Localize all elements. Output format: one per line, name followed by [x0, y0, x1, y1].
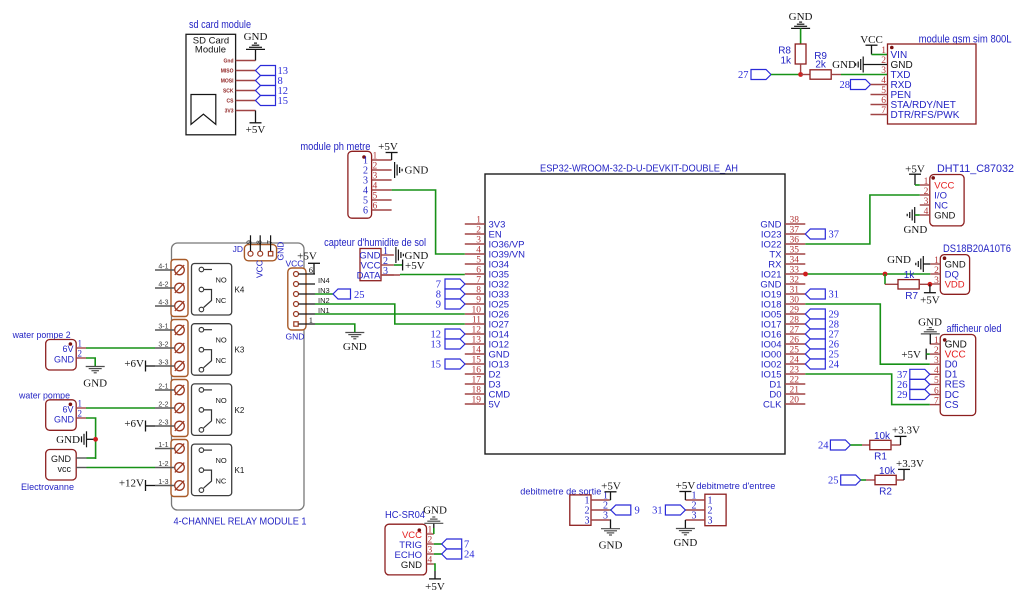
svg-text:8: 8 — [254, 240, 263, 244]
svg-text:4-2: 4-2 — [158, 282, 168, 289]
svg-text:10k: 10k — [874, 431, 891, 442]
power +3.3V at R1 — [900, 436, 902, 445]
svg-text:1k: 1k — [780, 56, 792, 67]
node 9 label at sortie — [610, 509, 611, 511]
svg-text:33: 33 — [790, 266, 800, 276]
svg-text:5V: 5V — [489, 399, 501, 410]
svg-text:25: 25 — [354, 290, 365, 301]
Electrovanne pins — [76, 457, 86, 459]
svg-text:15: 15 — [278, 96, 289, 107]
svg-text:3: 3 — [603, 511, 608, 522]
svg-text:32: 32 — [790, 276, 800, 286]
node 29 label at oled DC — [910, 390, 930, 400]
svg-text:MOSI: MOSI — [221, 79, 234, 85]
svg-text:GND: GND — [832, 59, 856, 71]
wire connector GND — [315, 324, 355, 333]
screw terminal 3-2 — [155, 347, 175, 349]
module gsm sim 800L body — [888, 44, 977, 124]
connector pin IN4 — [294, 282, 299, 287]
node 26 label — [805, 339, 825, 349]
svg-text:GND: GND — [599, 540, 623, 552]
screw terminal 4-3 — [155, 305, 175, 307]
svg-text:24: 24 — [818, 441, 829, 452]
svg-text:+5V: +5V — [425, 581, 445, 593]
screw terminal 3-3 — [155, 365, 175, 367]
module ph metre body — [348, 151, 372, 218]
U1 ESP32 body — [485, 174, 785, 454]
svg-text:5: 5 — [934, 376, 939, 386]
svg-text:+5V: +5V — [405, 260, 425, 272]
debitmetre d'entree body — [705, 494, 726, 526]
svg-text:1: 1 — [428, 526, 433, 536]
svg-text:VCC: VCC — [860, 34, 883, 46]
screw terminal 3-1 — [155, 329, 175, 331]
svg-text:NC: NC — [216, 296, 227, 305]
node 13 label (MISO) — [256, 66, 276, 76]
junction R8/R9 — [798, 72, 803, 77]
svg-text:30: 30 — [790, 296, 800, 306]
svg-text:26: 26 — [790, 336, 800, 346]
svg-text:3: 3 — [428, 546, 433, 556]
svg-text:31: 31 — [790, 286, 800, 296]
svg-text:R7: R7 — [905, 291, 918, 302]
ground GND at ph metre pin2 — [394, 162, 396, 178]
resistor R2 10k — [866, 479, 875, 481]
svg-text:14: 14 — [472, 346, 482, 356]
svg-text:1-2: 1-2 — [158, 461, 168, 468]
svg-text:21: 21 — [790, 386, 800, 396]
svg-text:20: 20 — [790, 396, 800, 406]
svg-text:GND: GND — [789, 11, 813, 23]
svg-text:ESP32-WROOM-32-D-U-DEVKIT-DOUB: ESP32-WROOM-32-D-U-DEVKIT-DOUBLE_AH — [540, 164, 738, 175]
svg-text:4: 4 — [934, 366, 939, 376]
ground GND below water pompe 2 — [86, 366, 105, 368]
svg-text:1: 1 — [78, 399, 83, 409]
capteur body — [360, 249, 381, 281]
HC-SR04 pins — [427, 533, 434, 535]
wire pompe2 GND — [86, 358, 95, 367]
sd card icon — [191, 95, 216, 125]
svg-text:GND: GND — [54, 354, 75, 364]
svg-text:+5V: +5V — [246, 124, 266, 136]
svg-text:4: 4 — [476, 246, 481, 256]
capteur pins — [381, 254, 394, 256]
ground GND below relay connector — [345, 332, 364, 334]
relay K2 — [192, 384, 232, 436]
relay K3 — [192, 324, 232, 376]
svg-text:2: 2 — [78, 409, 83, 419]
svg-text:3: 3 — [924, 197, 929, 207]
wire pompe GND down — [86, 418, 96, 459]
svg-text:18: 18 — [472, 386, 482, 396]
svg-text:CS: CS — [227, 99, 235, 105]
svg-text:GND: GND — [244, 31, 268, 43]
svg-text:VCC: VCC — [255, 260, 265, 278]
resistor R1 10k — [862, 444, 870, 446]
power +5V at DS18B20 — [929, 284, 931, 292]
svg-text:GND: GND — [918, 317, 942, 329]
svg-text:27: 27 — [790, 326, 800, 336]
DS18B20 body — [940, 255, 969, 295]
connector pin IN2 — [294, 302, 299, 307]
svg-text:GND: GND — [276, 242, 286, 261]
node 15 label (CS) — [256, 96, 276, 106]
svg-text:4-3: 4-3 — [158, 300, 168, 307]
svg-text:6: 6 — [363, 206, 368, 217]
wire pompe2 to 3-2 — [86, 347, 155, 349]
JD pin 9 — [248, 251, 253, 256]
svg-text:NO: NO — [216, 456, 227, 465]
DS18B20 pins — [930, 263, 940, 265]
relay K1 — [192, 444, 232, 496]
svg-text:29: 29 — [790, 306, 800, 316]
svg-text:GND: GND — [56, 434, 80, 446]
svg-text:24: 24 — [464, 550, 475, 561]
svg-text:GND: GND — [405, 165, 429, 177]
svg-text:6V: 6V — [62, 344, 73, 354]
svg-text:vcc: vcc — [58, 464, 72, 474]
water pompe pins — [76, 407, 86, 409]
svg-text:K2: K2 — [235, 406, 245, 415]
svg-text:2: 2 — [924, 187, 929, 197]
svg-text:R2: R2 — [879, 486, 892, 497]
svg-text:2k: 2k — [815, 60, 827, 71]
svg-text:NC: NC — [216, 416, 227, 425]
svg-text:11: 11 — [472, 316, 481, 326]
svg-text:3V3: 3V3 — [225, 109, 234, 115]
svg-text:1-3: 1-3 — [158, 479, 168, 486]
svg-text:16: 16 — [472, 366, 482, 376]
svg-text:17: 17 — [472, 376, 482, 386]
node 12 label (SCK) — [256, 86, 276, 96]
node 37 label at oled D1 — [910, 369, 930, 379]
svg-text:29: 29 — [897, 390, 908, 401]
svg-text:DS18B20A10T6: DS18B20A10T6 — [943, 243, 1011, 255]
svg-text:GND: GND — [423, 505, 447, 517]
svg-text:2: 2 — [881, 56, 886, 66]
svg-text:6: 6 — [934, 386, 939, 396]
svg-text:4: 4 — [373, 182, 378, 192]
svg-text:7: 7 — [881, 106, 886, 116]
svg-text:13: 13 — [472, 336, 482, 346]
svg-text:1-1: 1-1 — [158, 442, 168, 449]
svg-text:+5V: +5V — [378, 141, 398, 153]
svg-text:2: 2 — [373, 162, 378, 172]
svg-text:+5V: +5V — [920, 295, 940, 307]
svg-text:10: 10 — [472, 306, 482, 316]
svg-text:1k: 1k — [904, 270, 916, 281]
resistor R7 1k — [885, 283, 898, 285]
svg-text:25: 25 — [790, 346, 800, 356]
node 8 label at IO33 — [445, 289, 465, 299]
power +5V at sd card — [255, 111, 257, 123]
svg-text:K3: K3 — [235, 346, 245, 355]
screw terminal 2-1 — [155, 389, 175, 391]
svg-text:2: 2 — [934, 346, 939, 356]
ph metre pins — [372, 159, 392, 161]
power +5V at ph metre — [391, 153, 393, 161]
svg-text:2: 2 — [78, 349, 83, 359]
svg-text:15: 15 — [431, 360, 442, 371]
svg-text:MISO: MISO — [221, 69, 234, 75]
wire GND to R8 — [800, 28, 802, 44]
svg-text:NO: NO — [216, 276, 227, 285]
svg-text:34: 34 — [790, 256, 800, 266]
svg-text:31: 31 — [829, 290, 840, 301]
svg-text:22: 22 — [790, 376, 800, 386]
wire elec vcc to 1-2 — [87, 467, 156, 469]
connector pin IN3 — [294, 292, 299, 297]
svg-text:3-2: 3-2 — [158, 342, 168, 349]
junction R7 tap — [883, 272, 888, 277]
svg-text:GND: GND — [401, 560, 422, 571]
svg-text:6: 6 — [373, 202, 378, 212]
JD pin 8 — [258, 251, 263, 256]
svg-text:DATA: DATA — [357, 271, 382, 282]
svg-text:13: 13 — [431, 340, 442, 351]
svg-text:6V: 6V — [62, 404, 73, 414]
svg-text:1: 1 — [934, 336, 939, 346]
svg-text:28: 28 — [840, 80, 851, 91]
svg-text:GND: GND — [83, 378, 107, 390]
wire IN1 to IO26 — [315, 313, 465, 315]
svg-text:+5V: +5V — [901, 349, 921, 361]
water pompe 2 body — [46, 340, 76, 371]
U1 left pins — [465, 223, 485, 225]
junction VDD +5V — [928, 282, 933, 287]
svg-text:CLK: CLK — [763, 399, 782, 410]
svg-text:3: 3 — [585, 516, 590, 527]
svg-text:afficheur oled: afficheur oled — [947, 323, 1002, 335]
node 15 label at IO13 — [445, 359, 465, 369]
svg-text:SCK: SCK — [223, 89, 234, 95]
svg-text:5: 5 — [476, 256, 481, 266]
svg-text:1: 1 — [476, 216, 481, 226]
DHT11 body — [930, 175, 964, 226]
svg-text:+12V: +12V — [119, 478, 144, 490]
svg-text:3: 3 — [692, 511, 697, 522]
svg-text:25: 25 — [828, 476, 839, 487]
svg-text:19: 19 — [472, 396, 482, 406]
svg-text:24: 24 — [790, 356, 800, 366]
wire IN2 to IO27 — [315, 304, 465, 324]
HC-SR04 body — [385, 524, 427, 575]
sd card module body — [186, 34, 236, 135]
node 27 label — [751, 70, 771, 80]
svg-text:36: 36 — [790, 236, 800, 246]
svg-text:GND: GND — [887, 254, 911, 266]
svg-text:3: 3 — [934, 356, 939, 366]
svg-text:3: 3 — [708, 516, 713, 527]
power +5V below HC-SR04 — [434, 564, 435, 571]
svg-text:2-1: 2-1 — [158, 384, 168, 391]
wire VCC to VIN — [872, 54, 888, 56]
svg-text:2-3: 2-3 — [158, 420, 168, 427]
svg-text:10k: 10k — [879, 466, 896, 477]
svg-text:GND: GND — [934, 210, 955, 221]
svg-text:+5V: +5V — [676, 480, 696, 492]
svg-text:12: 12 — [472, 326, 482, 336]
svg-text:debitmetre d'entree: debitmetre d'entree — [696, 481, 775, 492]
svg-text:6: 6 — [881, 96, 886, 106]
node 9 label at IO25 — [445, 299, 465, 309]
svg-text:GND: GND — [343, 341, 367, 353]
ground GND at DHT pin4 — [914, 207, 916, 223]
debitmetre de sortie body — [570, 495, 591, 525]
svg-text:4: 4 — [428, 556, 433, 566]
resistor R8 1k — [795, 44, 806, 64]
svg-text:3: 3 — [476, 236, 481, 246]
svg-text:K1: K1 — [235, 466, 245, 475]
node 29 label — [805, 309, 825, 319]
water pompe body — [46, 400, 76, 431]
ground GND at sortie — [609, 520, 612, 529]
relay K4 — [192, 264, 232, 316]
ground GND at sd card — [255, 49, 257, 60]
svg-text:+5V: +5V — [297, 251, 317, 263]
sd card pins — [236, 60, 256, 62]
svg-text:Gnd: Gnd — [224, 59, 234, 65]
power +5V at sortie — [609, 499, 612, 501]
water pompe 2 pins — [76, 347, 86, 349]
ground GND above HC-SR04 — [433, 528, 435, 534]
svg-text:7: 7 — [265, 240, 274, 244]
svg-text:+5V: +5V — [601, 481, 621, 493]
power +5V at capteur pin2 — [394, 264, 403, 266]
node 28 label (RXD) — [851, 80, 871, 90]
svg-text:HC-SR04: HC-SR04 — [385, 510, 425, 521]
svg-text:VDD: VDD — [945, 279, 965, 290]
node 8 label (MOSI) — [256, 76, 276, 86]
svg-text:DHT11_C87032: DHT11_C87032 — [937, 163, 1014, 175]
wire 27 to junction — [771, 74, 801, 76]
svg-text:Electrovanne: Electrovanne — [21, 482, 74, 493]
svg-text:23: 23 — [790, 366, 800, 376]
ground GND at entree — [684, 520, 686, 529]
svg-text:NO: NO — [216, 336, 227, 345]
svg-text:1: 1 — [78, 339, 83, 349]
svg-text:4-1: 4-1 — [158, 264, 168, 271]
wire junction to R7 — [884, 274, 886, 284]
screw terminal 4-2 — [155, 287, 175, 289]
wire R9 to TXD — [841, 74, 888, 76]
svg-text:GND: GND — [903, 224, 927, 236]
wire IO15 to oled CS — [805, 374, 930, 405]
connector pin 1 — [294, 322, 298, 326]
node 24 label at ECHO — [434, 553, 442, 555]
svg-text:NC: NC — [216, 477, 227, 486]
svg-text:R1: R1 — [874, 451, 887, 462]
node 25 label — [805, 349, 825, 359]
wire IO21 to DQ — [805, 273, 930, 275]
svg-text:7: 7 — [476, 276, 481, 286]
svg-text:9: 9 — [635, 506, 640, 517]
svg-text:28: 28 — [790, 316, 800, 326]
svg-text:27: 27 — [738, 70, 749, 81]
wire DHT I/O to IO22 — [805, 195, 920, 244]
svg-text:NC: NC — [216, 356, 227, 365]
svg-text:9: 9 — [245, 240, 254, 244]
resistor R9 2k — [801, 74, 810, 76]
svg-text:sd card module: sd card module — [189, 19, 251, 31]
svg-text:3-3: 3-3 — [158, 360, 168, 367]
svg-text:2: 2 — [476, 226, 481, 236]
screw terminal 4-1 — [155, 269, 175, 271]
svg-text:1: 1 — [881, 46, 886, 56]
connector pin 6 — [294, 272, 299, 277]
svg-text:4-CHANNEL RELAY MODULE 1: 4-CHANNEL RELAY MODULE 1 — [174, 516, 307, 528]
svg-text:K4: K4 — [235, 286, 245, 295]
power +5V at entree — [684, 492, 686, 501]
svg-text:1: 1 — [309, 315, 313, 325]
oled pins — [930, 343, 940, 345]
svg-text:GND: GND — [286, 331, 305, 341]
relay input connector — [288, 268, 306, 330]
svg-text:5: 5 — [373, 192, 378, 202]
node 26 label at oled RES — [910, 379, 930, 389]
svg-text:GND: GND — [673, 537, 697, 549]
screw terminal 1-3 — [155, 485, 175, 487]
svg-text:9: 9 — [436, 300, 441, 311]
ground GND at capteur pin1 — [395, 247, 397, 263]
wire DATA to IO35 — [381, 274, 400, 276]
DHT11 pins — [920, 184, 930, 186]
svg-text:4: 4 — [881, 76, 886, 86]
connector JD — [244, 245, 276, 261]
svg-text:4: 4 — [924, 207, 929, 217]
svg-text:capteur d'humidite de sol: capteur d'humidite de sol — [324, 237, 426, 249]
JD pin 7 — [268, 252, 272, 256]
4-channel relay module outline — [172, 243, 305, 510]
svg-text:3: 3 — [881, 66, 886, 76]
node 12 label at IO14 — [445, 329, 465, 339]
node 28 label — [805, 319, 825, 329]
screw terminal 1-2 — [155, 467, 175, 469]
svg-text:1: 1 — [924, 177, 929, 187]
wire ph metre pin4 to IO39/VN — [392, 190, 465, 254]
svg-text:+6V: +6V — [124, 358, 144, 370]
svg-text:Module: Module — [195, 45, 226, 56]
svg-text:+3.3V: +3.3V — [896, 458, 924, 470]
node 7 label at IO32 — [445, 279, 465, 289]
svg-text:38: 38 — [790, 216, 800, 226]
node 25 label at IN3 — [315, 293, 333, 295]
screw terminal 2-2 — [155, 407, 175, 409]
svg-text:JD: JD — [233, 244, 243, 254]
svg-text:5: 5 — [881, 86, 886, 96]
screw terminal 1-1 — [155, 448, 175, 450]
Electrovanne body — [46, 450, 76, 481]
node 27 label — [805, 329, 825, 339]
svg-text:7: 7 — [934, 396, 939, 406]
svg-text:+6V: +6V — [124, 418, 144, 430]
debitmetre entree pins — [685, 499, 705, 501]
screw terminal blocks — [171, 260, 188, 317]
node 24 label — [805, 359, 825, 369]
node 31 label at entree — [665, 505, 685, 515]
node 31 label at IO19 — [805, 289, 825, 299]
svg-text:2-2: 2-2 — [158, 402, 168, 409]
svg-text:24: 24 — [829, 360, 840, 371]
svg-text:1: 1 — [373, 152, 378, 162]
debitmetre sortie pins — [591, 499, 610, 501]
svg-text:3: 3 — [373, 172, 378, 182]
svg-text:1: 1 — [934, 256, 939, 266]
U1 right pins — [785, 223, 805, 225]
node 7 label at TRIG — [434, 543, 442, 545]
node 13 label at IO12 — [445, 339, 465, 349]
screw terminal 2-3 — [155, 425, 175, 427]
